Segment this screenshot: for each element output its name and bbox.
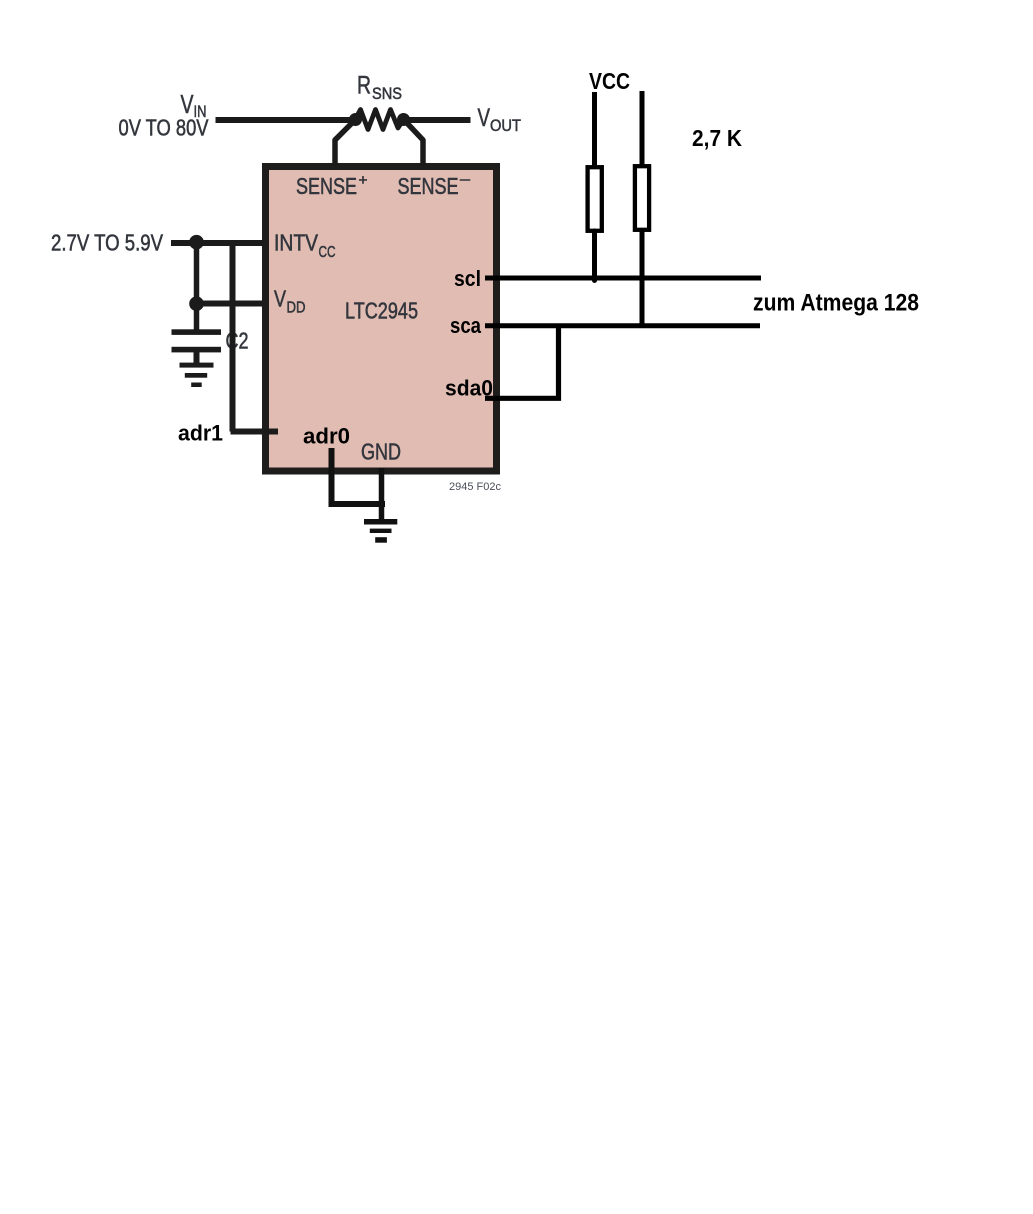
svg-text:CC: CC — [319, 244, 336, 261]
svg-text:LTC2945: LTC2945 — [345, 298, 418, 324]
svg-text:2945 F02c: 2945 F02c — [449, 481, 501, 493]
label VOUT — [478, 104, 522, 135]
pin label scl — [454, 266, 481, 291]
pin label adr0 — [303, 424, 350, 449]
wire adr1 to adr0 pin — [231, 429, 279, 435]
wire VDD pin — [193, 301, 266, 307]
node right sense junction dot — [397, 113, 410, 126]
wire INTVCC pin — [171, 240, 266, 246]
svg-text:SENSE: SENSE — [398, 173, 459, 199]
pin label sca — [450, 313, 482, 338]
label VIN — [181, 89, 207, 121]
ground under GND pin — [364, 519, 397, 543]
wire VIN to RSNS — [216, 117, 353, 123]
wire SENSE- drop — [406, 122, 423, 166]
wire right pullup to sca — [640, 230, 645, 326]
svg-text:zum Atmega 128: zum Atmega 128 — [753, 290, 919, 317]
label 2,7 K — [692, 125, 742, 151]
svg-text:sda0: sda0 — [445, 376, 493, 401]
wire RSNS to VOUT — [407, 117, 471, 123]
label adr1 — [178, 421, 223, 446]
node left sense junction dot — [349, 113, 362, 126]
svg-text:GND: GND — [361, 439, 401, 465]
label 2.7V TO 5.9V — [51, 230, 164, 256]
svg-text:INTV: INTV — [274, 230, 319, 256]
svg-text:SENSE: SENSE — [296, 173, 357, 199]
svg-text:R: R — [357, 72, 371, 100]
label RSNS — [357, 72, 402, 104]
pin label SENSE+ — [296, 172, 368, 199]
svg-text:adr1: adr1 — [178, 421, 223, 446]
svg-text:sca: sca — [450, 313, 482, 338]
wire GND pin drop — [379, 468, 385, 520]
label VCC — [589, 68, 630, 94]
pin label GND — [361, 439, 401, 465]
svg-text:VCC: VCC — [589, 68, 630, 94]
svg-text:2,7 K: 2,7 K — [692, 125, 742, 151]
wire supply vertical to capacitor — [194, 243, 200, 331]
wire adr0 drop below IC — [332, 448, 386, 504]
svg-text:DD: DD — [287, 300, 306, 317]
IC U1 LTC2945 body — [266, 167, 497, 472]
capacitor C2 plates — [172, 329, 222, 364]
wire adr1 vertical from INTVCC line — [230, 241, 236, 432]
svg-text:C2: C2 — [226, 328, 249, 354]
label C2 — [226, 328, 249, 354]
svg-text:SNS: SNS — [372, 84, 402, 103]
label LTC2945 — [345, 298, 418, 324]
svg-text:–: – — [460, 171, 471, 188]
svg-text:+: + — [359, 172, 368, 189]
wire SENSE+ drop — [335, 122, 353, 166]
label 0V TO 80V — [119, 115, 210, 141]
node junction dot at VDD — [189, 296, 204, 311]
wire scl line — [485, 276, 761, 281]
wire VCC right pullup top — [640, 91, 645, 166]
pin label SENSE- — [398, 171, 471, 199]
svg-text:V: V — [478, 104, 491, 132]
pin label VDD — [274, 286, 306, 317]
pin label INTVCC — [274, 230, 336, 262]
svg-text:OUT: OUT — [490, 116, 521, 135]
label 2945 F02c — [449, 481, 501, 493]
label zum Atmega 128 — [753, 290, 919, 317]
resistor R2 pullup right box — [635, 166, 649, 230]
wire sda0 line — [485, 326, 559, 399]
svg-text:V: V — [274, 286, 287, 312]
pin label sda0 — [445, 376, 493, 401]
ground under C2 — [180, 363, 214, 387]
resistor R1 pullup left box — [588, 167, 602, 231]
resistor RSNS zigzag — [355, 110, 404, 130]
wire left pullup to scl — [592, 231, 597, 281]
svg-text:adr0: adr0 — [303, 424, 350, 449]
wire VCC left pullup top — [592, 92, 597, 167]
svg-text:scl: scl — [454, 266, 481, 291]
wire sca line — [485, 323, 760, 328]
node junction dot at INTVCC — [189, 235, 204, 250]
svg-text:2.7V TO 5.9V: 2.7V TO 5.9V — [51, 230, 164, 256]
svg-text:0V TO 80V: 0V TO 80V — [119, 115, 210, 141]
